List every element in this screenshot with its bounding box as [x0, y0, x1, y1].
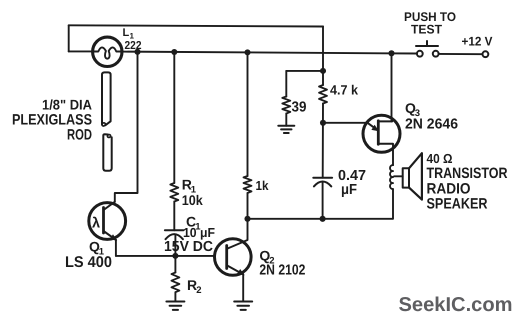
wire emitter bus to R2 [174, 256, 176, 273]
label +12 V [462, 35, 494, 49]
label 0.47 [338, 168, 366, 184]
wire 1k bottom to bottom bus [247, 193, 249, 219]
label Q1 [89, 239, 105, 258]
label 4.7k [330, 82, 358, 97]
svg-text:μF: μF [341, 182, 357, 198]
svg-text:10 μF: 10 μF [183, 225, 215, 240]
resistor 39 [282, 97, 290, 114]
label Q3 [405, 100, 420, 119]
wire bottom bus [248, 218, 393, 220]
speaker cone [409, 153, 422, 199]
transistor Q2 [215, 239, 252, 276]
wire 0.47uF bottom lead [322, 182, 324, 219]
label 10uF [183, 225, 215, 240]
wire 39 branch horizontal [286, 70, 323, 72]
wire Q1 collector to bus [115, 52, 138, 202]
svg-text:SeekIC.com: SeekIC.com [399, 294, 513, 316]
label R1 [182, 177, 197, 196]
label uF [341, 182, 357, 198]
label lambda (light input) [92, 215, 100, 231]
label 1k [256, 178, 270, 193]
junction node C1/R2 [172, 253, 178, 259]
svg-text:TEST: TEST [411, 22, 442, 36]
label C1 [186, 213, 201, 232]
svg-text:15V DC: 15V DC [164, 239, 214, 255]
label 40 ohm [427, 151, 453, 166]
svg-text:2N 2102: 2N 2102 [259, 262, 305, 278]
wire 4.7k bottom to cap [322, 104, 324, 178]
wire Q3 base2 to bus [391, 53, 393, 121]
svg-text:+12 V: +12 V [462, 35, 494, 49]
label SPEAKER [427, 196, 488, 213]
label 39 [292, 99, 307, 115]
label L1 [123, 27, 135, 41]
svg-text:2: 2 [196, 285, 201, 296]
label 2N2102 [259, 262, 305, 278]
wire 39 top lead [285, 71, 287, 97]
resistor 1k [244, 176, 252, 193]
svg-text:ROD: ROD [67, 126, 92, 143]
value label 222 [125, 40, 142, 52]
wire +12V bus [122, 52, 417, 54]
junction node 0.47uF bottom [320, 216, 326, 222]
wire C1 to emitter bus [174, 235, 176, 256]
watermark SeekIC.com [399, 294, 513, 316]
wire switch to +12V terminal [439, 53, 483, 55]
phototransistor Q1 [89, 202, 126, 241]
label LS 400 [65, 254, 112, 271]
plexiglass rod upper segment [101, 72, 110, 126]
label Q2 [259, 248, 274, 267]
svg-text:1: 1 [130, 31, 135, 40]
wire emitter bus to Q2 base [116, 255, 215, 257]
wire Q1 emitter down [115, 240, 117, 256]
ground below R2 [166, 302, 184, 310]
wire Q3 emitter horizontal [323, 122, 368, 124]
label 1/8" DIA [42, 97, 92, 113]
wire 1k top lead [247, 52, 249, 176]
ground below 39 [278, 126, 294, 133]
svg-text:LS 400: LS 400 [65, 254, 112, 271]
svg-text:4.7 k: 4.7 k [330, 82, 358, 97]
terminal +12V [483, 51, 489, 57]
svg-text:1k: 1k [256, 178, 270, 193]
wire coil to bottom bus corner [392, 189, 394, 219]
label PUSH TO [404, 10, 456, 24]
lamp L1 [93, 37, 122, 66]
UJT Q3 [363, 115, 400, 152]
ground below Q2 [234, 302, 252, 310]
label 10k [182, 192, 203, 208]
label ROD [67, 126, 92, 143]
speaker driver box [394, 168, 409, 187]
svg-text:L: L [123, 27, 130, 39]
wire Q3 base1 down to coil [392, 144, 394, 165]
svg-text:1/8" DIA: 1/8" DIA [42, 97, 92, 113]
resistor R1 [170, 183, 178, 202]
capacitor 0.47uF [313, 178, 332, 187]
speaker voice coil [390, 165, 393, 189]
junction node Q3 emitter tap [320, 120, 326, 126]
wire 4.7k branch vertical (top wire to bottom bus) [322, 27, 324, 86]
junction node 39 branch [320, 68, 326, 74]
junction node Q3 base2 / switch [388, 50, 394, 56]
resistor R2 [171, 273, 179, 293]
label TEST [411, 22, 442, 36]
wire Q2 collector [227, 219, 248, 249]
wire stub to lamp left terminal [69, 50, 93, 52]
label TRANSISTOR [427, 165, 508, 182]
wire top loop horizontal [69, 25, 323, 26]
capacitor C1 [165, 230, 184, 239]
label R2 [187, 277, 202, 296]
wire Q2 emitter to ground [242, 274, 244, 301]
svg-text:40 Ω: 40 Ω [427, 151, 453, 166]
plexiglass rod lower segment [103, 134, 111, 171]
svg-text:2N 2646: 2N 2646 [405, 117, 458, 133]
label RADIO [427, 180, 471, 197]
svg-text:SPEAKER: SPEAKER [427, 196, 488, 213]
svg-text:λ: λ [92, 215, 100, 231]
label 15VDC [164, 239, 214, 255]
pushbutton switch S1 [416, 41, 439, 57]
wire R1 to C1 [173, 202, 175, 231]
label PLEXIGLASS [12, 111, 92, 128]
junction node 1k / Q2 collector [244, 216, 250, 222]
svg-text:39: 39 [292, 99, 307, 115]
wire 39 to ground [285, 114, 287, 126]
wire top loop left vertical [68, 25, 70, 51]
junction node lamp/Q1 collector [134, 49, 140, 55]
svg-text:10k: 10k [182, 192, 203, 208]
label 2N2646 [405, 117, 458, 133]
resistor 4.7k [319, 85, 327, 104]
wire R1 top lead [173, 52, 175, 183]
wire R2 to ground [174, 292, 176, 301]
junction node 1k top [244, 49, 250, 55]
junction node R1 top [171, 49, 177, 55]
